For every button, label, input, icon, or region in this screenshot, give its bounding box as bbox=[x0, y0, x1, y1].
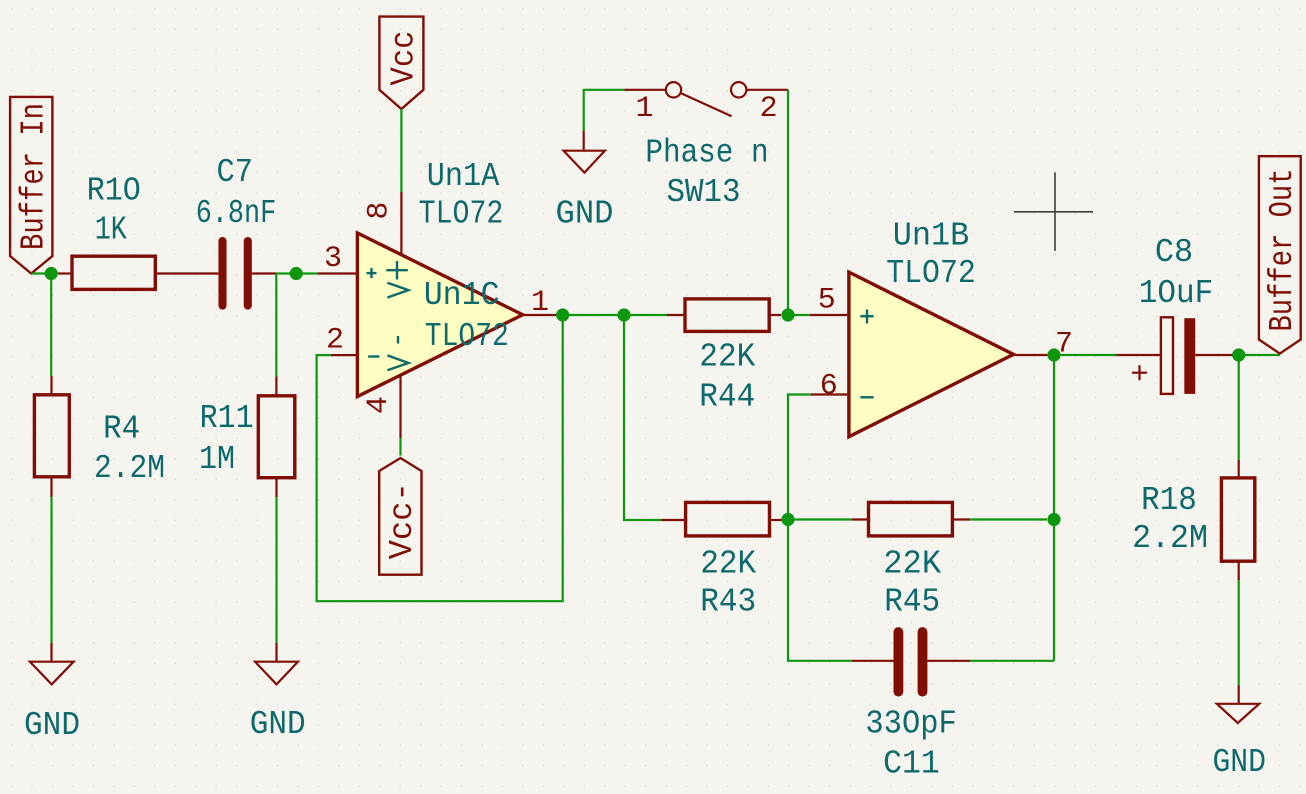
resistor R4 bbox=[34, 376, 165, 497]
op-amp B plus marker bbox=[860, 310, 873, 324]
hierarchical label Buffer In bbox=[10, 97, 52, 274]
op-amp A chevron lower bbox=[387, 355, 408, 370]
op-amp U1A bbox=[357, 158, 522, 397]
wire vertical output to C11 bbox=[1053, 355, 1055, 661]
junction R43 R45 node bbox=[781, 513, 794, 526]
C8 plus polarity mark bbox=[1132, 365, 1147, 380]
svg-text:R44: R44 bbox=[699, 379, 755, 416]
pin 5 bbox=[810, 284, 849, 318]
wire feedback loop bbox=[317, 315, 563, 601]
resistor R43 bbox=[662, 502, 782, 620]
svg-text:4: 4 bbox=[362, 396, 396, 414]
op-amp U1B bbox=[849, 218, 1014, 437]
hierarchical label Buffer Out bbox=[1259, 156, 1301, 353]
wire C8 to Buffer Out bbox=[1236, 354, 1280, 356]
ground at switch bbox=[556, 130, 614, 232]
capacitor C7 bbox=[196, 154, 277, 306]
wire node down to C11 bbox=[788, 520, 852, 661]
ground at R11 bbox=[250, 643, 306, 743]
pin 7 output bbox=[1013, 328, 1073, 362]
resistor R18 bbox=[1132, 460, 1255, 580]
svg-text:Un1C: Un1C bbox=[424, 277, 500, 314]
ground at R4 bbox=[24, 643, 80, 744]
ground at R18 bbox=[1212, 685, 1266, 781]
svg-text:SW13: SW13 bbox=[667, 174, 741, 211]
op-amp B minus marker bbox=[860, 396, 873, 398]
svg-text:2.2M: 2.2M bbox=[94, 450, 165, 487]
svg-text:Buffer Out: Buffer Out bbox=[1264, 169, 1301, 332]
svg-text:TLO72: TLO72 bbox=[425, 318, 509, 355]
svg-text:6.8nF: 6.8nF bbox=[196, 195, 277, 232]
pin 2 bbox=[326, 324, 357, 358]
wire C7 to pin3 bbox=[276, 272, 317, 274]
svg-text:Buffer In: Buffer In bbox=[16, 103, 53, 250]
switch SW13 bbox=[624, 82, 788, 211]
op-amp U1C label bbox=[424, 277, 509, 355]
svg-text:R43: R43 bbox=[700, 584, 756, 621]
wire R45 to output node bbox=[970, 518, 1047, 520]
junction after C7 bbox=[290, 267, 303, 280]
pin 3 bbox=[318, 242, 358, 276]
svg-text:33OpF: 33OpF bbox=[865, 706, 956, 743]
junction R45 output bbox=[1047, 513, 1060, 526]
svg-text:R45: R45 bbox=[884, 584, 940, 621]
resistor R44 bbox=[667, 299, 781, 416]
svg-text:1: 1 bbox=[635, 92, 653, 126]
svg-text:GND: GND bbox=[556, 195, 614, 232]
junction output B bbox=[1047, 348, 1060, 361]
svg-text:8: 8 bbox=[362, 202, 396, 220]
wire down to R18 bbox=[1238, 355, 1240, 460]
wire pin4 to Vcc- bbox=[399, 438, 401, 456]
svg-text:GND: GND bbox=[24, 707, 80, 744]
op-amp A minus marker bbox=[368, 355, 379, 357]
svg-text:1OuF: 1OuF bbox=[1139, 275, 1214, 312]
svg-text:R18: R18 bbox=[1141, 482, 1197, 519]
svg-text:22K: 22K bbox=[883, 546, 941, 583]
wire Vcc to pin8 bbox=[400, 109, 402, 192]
svg-text:2: 2 bbox=[760, 92, 778, 126]
junction Buffer Out node bbox=[1232, 348, 1245, 361]
wire R18 to GND bbox=[1238, 580, 1240, 685]
svg-text:1: 1 bbox=[531, 286, 549, 320]
wire output B net bbox=[1047, 354, 1117, 356]
junction output A bbox=[556, 308, 569, 321]
svg-text:3: 3 bbox=[324, 242, 342, 276]
pin 8 bbox=[362, 192, 401, 255]
svg-text:C11: C11 bbox=[883, 746, 940, 783]
svg-text:R1O: R1O bbox=[87, 173, 141, 210]
op-amp A plus marker large bbox=[386, 261, 408, 280]
svg-text:1M: 1M bbox=[199, 441, 235, 478]
svg-text:22K: 22K bbox=[700, 546, 756, 583]
resistor R45 bbox=[852, 502, 970, 620]
junction at Buffer In node bbox=[45, 267, 58, 280]
pin 4 bbox=[362, 375, 400, 438]
svg-text:TLO72: TLO72 bbox=[419, 196, 504, 233]
pin 1 output bbox=[523, 286, 556, 320]
svg-text:1K: 1K bbox=[95, 212, 127, 249]
capacitor C8 bbox=[1117, 234, 1236, 394]
crosshair cursor bbox=[1014, 172, 1093, 251]
svg-text:TLO72: TLO72 bbox=[886, 255, 976, 292]
op-amp A dash bbox=[397, 336, 399, 344]
wire output net bbox=[556, 314, 667, 316]
svg-text:C7: C7 bbox=[217, 154, 254, 191]
op-amp A chevron upper bbox=[387, 283, 408, 298]
junction pin5 node bbox=[781, 308, 794, 321]
power label Vcc- bbox=[379, 458, 421, 575]
wire node to R45 bbox=[788, 518, 852, 520]
svg-text:GND: GND bbox=[1212, 744, 1266, 781]
svg-text:Phase n: Phase n bbox=[645, 135, 768, 172]
svg-text:6: 6 bbox=[820, 370, 838, 404]
capacitor C11 bbox=[852, 632, 970, 783]
wire switch pin2 down to pin5 node bbox=[787, 90, 789, 315]
wire Buffer In to R10 bbox=[31, 272, 59, 274]
resistor R10 bbox=[58, 173, 218, 290]
wire down to R43 bbox=[624, 315, 662, 520]
wire pin6 down to R43 node bbox=[788, 395, 811, 520]
svg-text:5: 5 bbox=[818, 284, 836, 318]
wire down to R11 bbox=[275, 274, 277, 377]
svg-text:C8: C8 bbox=[1155, 234, 1193, 271]
svg-text:Un1B: Un1B bbox=[893, 218, 970, 255]
svg-text:2: 2 bbox=[326, 324, 344, 358]
wire C11 right bbox=[970, 660, 1054, 662]
junction R43 branch bbox=[617, 308, 630, 321]
svg-text:GND: GND bbox=[250, 706, 306, 743]
wire R11 to GND bbox=[275, 497, 277, 643]
svg-text:Un1A: Un1A bbox=[427, 158, 500, 195]
power label Vcc bbox=[379, 17, 423, 109]
wire junction to R4 bbox=[50, 274, 52, 377]
wire R4 to GND bbox=[50, 497, 52, 643]
svg-text:Vcc: Vcc bbox=[386, 31, 423, 86]
op-amp A plus marker small bbox=[367, 268, 377, 278]
svg-text:22K: 22K bbox=[699, 338, 755, 375]
wire junction to pin5 bbox=[788, 314, 810, 316]
svg-text:R4: R4 bbox=[103, 411, 140, 448]
svg-text:R11: R11 bbox=[200, 400, 254, 437]
wire GND to switch pin1 bbox=[584, 90, 625, 131]
pin 6 bbox=[811, 370, 849, 404]
svg-text:Vcc-: Vcc- bbox=[384, 482, 421, 559]
resistor R11 bbox=[199, 377, 295, 498]
svg-text:2.2M: 2.2M bbox=[1132, 520, 1208, 557]
